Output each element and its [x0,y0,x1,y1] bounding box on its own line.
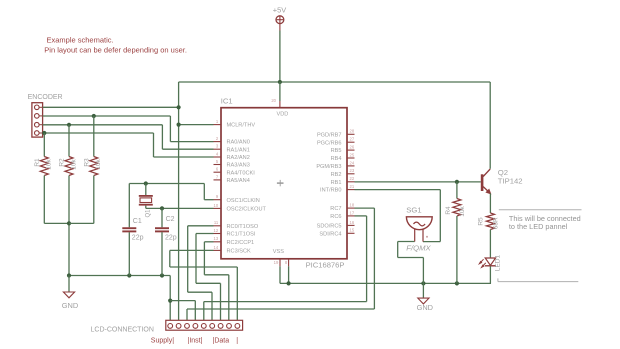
svg-text:INT/RB0: INT/RB0 [320,188,341,194]
svg-text:RB2: RB2 [331,172,342,178]
svg-text:OSC1/CLKIN: OSC1/CLKIN [227,198,260,204]
connector ENCODER [32,103,43,137]
wire +5V long vertical to LCD pin 2 [178,82,180,320]
wire LED1 to ground rail [489,266,491,283]
junction R4 bottom on rail [455,281,459,285]
wire R4 top [456,182,458,199]
wire C2 top [161,208,163,227]
svg-text:R1: R1 [34,158,41,167]
svg-text:RC6: RC6 [330,214,341,220]
svg-text:|: | [236,337,238,344]
svg-text:|Data: |Data [213,337,230,344]
wire +5V drop to VDD pin [279,82,281,101]
svg-text:2: 2 [216,136,219,141]
svg-text:RA5/AN4: RA5/AN4 [227,178,250,184]
svg-text:ENCODER: ENCODER [28,94,63,101]
connector LCD-CONNECTION [166,320,243,330]
wire C2 bottom [161,232,163,275]
junction encoder pin1 / +5V vertical [177,105,181,109]
svg-text:R2: R2 [59,158,66,167]
svg-text:26: 26 [350,145,355,150]
wire encoder pin3 to RA1 [43,124,163,126]
svg-text:22p: 22p [132,234,144,241]
wire +5V horizontal rail [179,81,491,83]
svg-text:22p: 22p [165,234,177,241]
svg-text:F/QMX: F/QMX [406,244,431,253]
svg-text:9: 9 [216,194,219,199]
svg-text:|Inst|: |Inst| [188,337,203,344]
IC1 VSS pin stubs [279,259,281,267]
svg-text:R4: R4 [445,206,452,215]
svg-text:RA1/AN1: RA1/AN1 [227,147,250,153]
IC1 left pin stubs [214,124,222,126]
svg-text:68R: 68R [493,217,500,229]
IC1 origin cross [277,182,284,184]
wire R2 bottom to ground rail [68,176,70,276]
wire RC3 to LCD pin 9 [170,249,214,251]
svg-text:10k: 10k [46,159,53,170]
junction R1 top [42,131,46,135]
resistor R3 [90,157,98,176]
wire RC7 to LCD pin 3 [355,207,375,209]
svg-text:4: 4 [216,151,219,156]
svg-text:PGC/RB6: PGC/RB6 [317,140,342,146]
wire buzzer left leg path to ground rail [398,241,415,243]
svg-text:RA2/AN2: RA2/AN2 [227,155,250,161]
IC1 right pin stubs [347,133,355,135]
wire encoder pin4 to RA2 [43,132,154,134]
wire left GND drop [68,276,70,292]
LED LED1 [485,258,495,265]
svg-text:13: 13 [214,236,219,241]
wire ground rail [280,282,491,284]
junction rail at C1 [127,273,131,277]
transistor Q2 [481,174,484,191]
ground symbol left [63,292,74,298]
svg-text:TIP142: TIP142 [498,177,523,186]
resistor R2 [65,157,73,176]
svg-text:SDI/RC4: SDI/RC4 [319,231,341,237]
svg-text:27: 27 [350,137,355,142]
svg-text:RA0/AN0: RA0/AN0 [227,140,250,146]
svg-text:GND: GND [417,303,433,312]
svg-text:6: 6 [216,167,219,172]
svg-text:28: 28 [350,129,355,134]
svg-text:RA4/T0CKI: RA4/T0CKI [227,170,256,176]
junction rail at R2 column [67,273,71,277]
svg-text:RB5: RB5 [331,148,342,154]
wire RC1 to LCD pin 7 [196,233,214,235]
svg-text:17: 17 [350,210,355,215]
junction LCD pin1 branch [168,299,172,303]
wire R3 bottom [93,176,95,224]
svg-text:PGD/RB7: PGD/RB7 [317,132,342,138]
svg-text:3: 3 [216,144,219,149]
svg-text:21: 21 [350,184,355,189]
junction MCLR / +5V vertical [177,123,181,127]
svg-text:RC7: RC7 [330,206,341,212]
wire crystal bottom / OSC2 net [145,206,147,209]
svg-text:5: 5 [216,159,219,164]
wire crystal top [145,184,147,196]
svg-text:25: 25 [350,152,355,157]
svg-text:LCD-CONNECTION: LCD-CONNECTION [91,327,154,334]
wire ground rail under capacitors [69,275,170,277]
svg-text:R5: R5 [478,217,485,226]
wire RB0 to buzzer [355,189,441,191]
svg-text:PGM/RB3: PGM/RB3 [316,164,341,170]
buzzer SG1 [406,217,432,230]
wire encoder pin1 to +5V vertical [43,106,179,108]
svg-text:GND: GND [62,301,78,310]
svg-text:10k: 10k [70,159,77,170]
svg-text:RC3/SCK: RC3/SCK [227,249,252,255]
svg-text:R3: R3 [83,158,90,167]
svg-text:SDO/RC5: SDO/RC5 [317,224,342,230]
wire GND drop right [422,283,424,298]
wire RC6 to LCD pin 5 [355,215,367,217]
junction rail at C2 [160,273,164,277]
junction +5V rail / VDD [278,80,282,84]
svg-text:10k: 10k [95,159,102,170]
junction crystal top tap [144,181,148,185]
junction GND symbol on rail [421,281,425,285]
capacitor C2 [155,227,169,229]
wire +5V symbol to rail [279,31,281,83]
svg-text:MCLR/THV: MCLR/THV [227,123,256,129]
svg-text:7: 7 [216,174,219,179]
svg-text:11: 11 [214,220,219,225]
svg-text:12: 12 [214,228,219,233]
wire VSS pins down to ground rail [279,266,281,283]
svg-text:C2: C2 [166,216,175,223]
junction R4 top [455,180,459,184]
svg-text:19: 19 [274,260,279,265]
junction R1 R3 bottoms on R2 column [67,221,71,225]
wire C1 bottom [128,232,130,275]
wire rail down to LCD pin 1 [169,276,171,321]
capacitor C1 [122,227,136,229]
svg-text:Example schematic.: Example schematic. [47,36,114,45]
wire R4 bottom to rail [456,216,458,283]
resistor R5 [486,213,494,230]
svg-text:10: 10 [214,203,219,208]
junction C2 top on OSC2 net [160,206,164,210]
wire R5 to LED1 [489,230,491,258]
+5V supply symbol [276,16,284,24]
svg-text:+5V: +5V [273,6,286,15]
svg-text:Q1: Q1 [146,209,152,218]
wire RC2 to LCD pin 8 [204,241,213,243]
note leader line bottom [498,281,578,283]
svg-text:1: 1 [216,119,219,124]
wire R1 top [43,133,45,157]
op-amp U1 none: microcontroller IC1 body [221,108,347,259]
svg-text:to the LED pannel: to the LED pannel [509,222,568,231]
wire C1 top [128,184,130,228]
note leader line top [499,209,582,211]
resistor R1 [40,157,48,176]
wire RB1 to Q2 base [355,181,481,183]
wire R1 bottom [43,176,45,224]
svg-text:RB4: RB4 [331,156,342,162]
svg-text:LED1: LED1 [494,254,501,271]
buzzer legs [414,229,416,242]
junction R2 top [67,123,71,127]
svg-text:OSC2/CLKOUT: OSC2/CLKOUT [227,207,267,213]
wire R2 top [68,125,70,157]
svg-text:10k: 10k [459,206,466,217]
svg-text:RB1: RB1 [331,180,342,186]
wire +5V drop to Q2 collector [489,82,491,169]
IC1 VDD pin stub [279,101,281,108]
svg-text:RA3/AN3: RA3/AN3 [227,163,250,169]
wire MCLR from +5V vertical [179,124,214,126]
svg-text:SG1: SG1 [406,206,421,215]
svg-text:15: 15 [350,228,355,233]
svg-text:Supply|: Supply| [151,337,174,344]
junction R3 top [92,114,96,118]
svg-text:C1: C1 [133,218,142,225]
resistor R4 [453,199,461,217]
svg-text:PIC16876P: PIC16876P [306,261,345,270]
wire R3 top [93,116,95,157]
svg-text:RC0/T1OSO: RC0/T1OSO [227,224,259,230]
wire Q2 emitter to R5 [489,193,491,213]
wire RC0 to LCD pin 6 [188,225,214,227]
svg-text:RC2/CCP1: RC2/CCP1 [227,240,255,246]
ground symbol right [418,298,429,304]
svg-text:24: 24 [350,160,355,165]
svg-text:VSS: VSS [273,249,284,255]
svg-text:14: 14 [214,245,219,250]
junction VSS2 on rail [287,281,291,285]
svg-text:22: 22 [350,176,355,181]
svg-text:8: 8 [285,260,288,265]
svg-text:IC1: IC1 [221,96,233,105]
svg-text:VDD: VDD [277,112,289,118]
svg-text:RC1/T1OSI: RC1/T1OSI [227,232,256,238]
LED1 emission arrows [479,259,483,264]
crystal Q1 [139,195,153,197]
svg-text:Pin layout can be defer depend: Pin layout can be defer depending on use… [44,45,187,54]
wire OSC1 net upper rail [129,183,204,185]
svg-text:20: 20 [271,98,276,103]
svg-text:23: 23 [350,168,355,173]
wire encoder pin2 to RA0 [43,115,171,117]
svg-text:16: 16 [350,220,355,225]
wire branch to LCD pin 4 [170,300,195,302]
svg-text:18: 18 [350,203,355,208]
buzzer polarity mark [426,236,428,238]
